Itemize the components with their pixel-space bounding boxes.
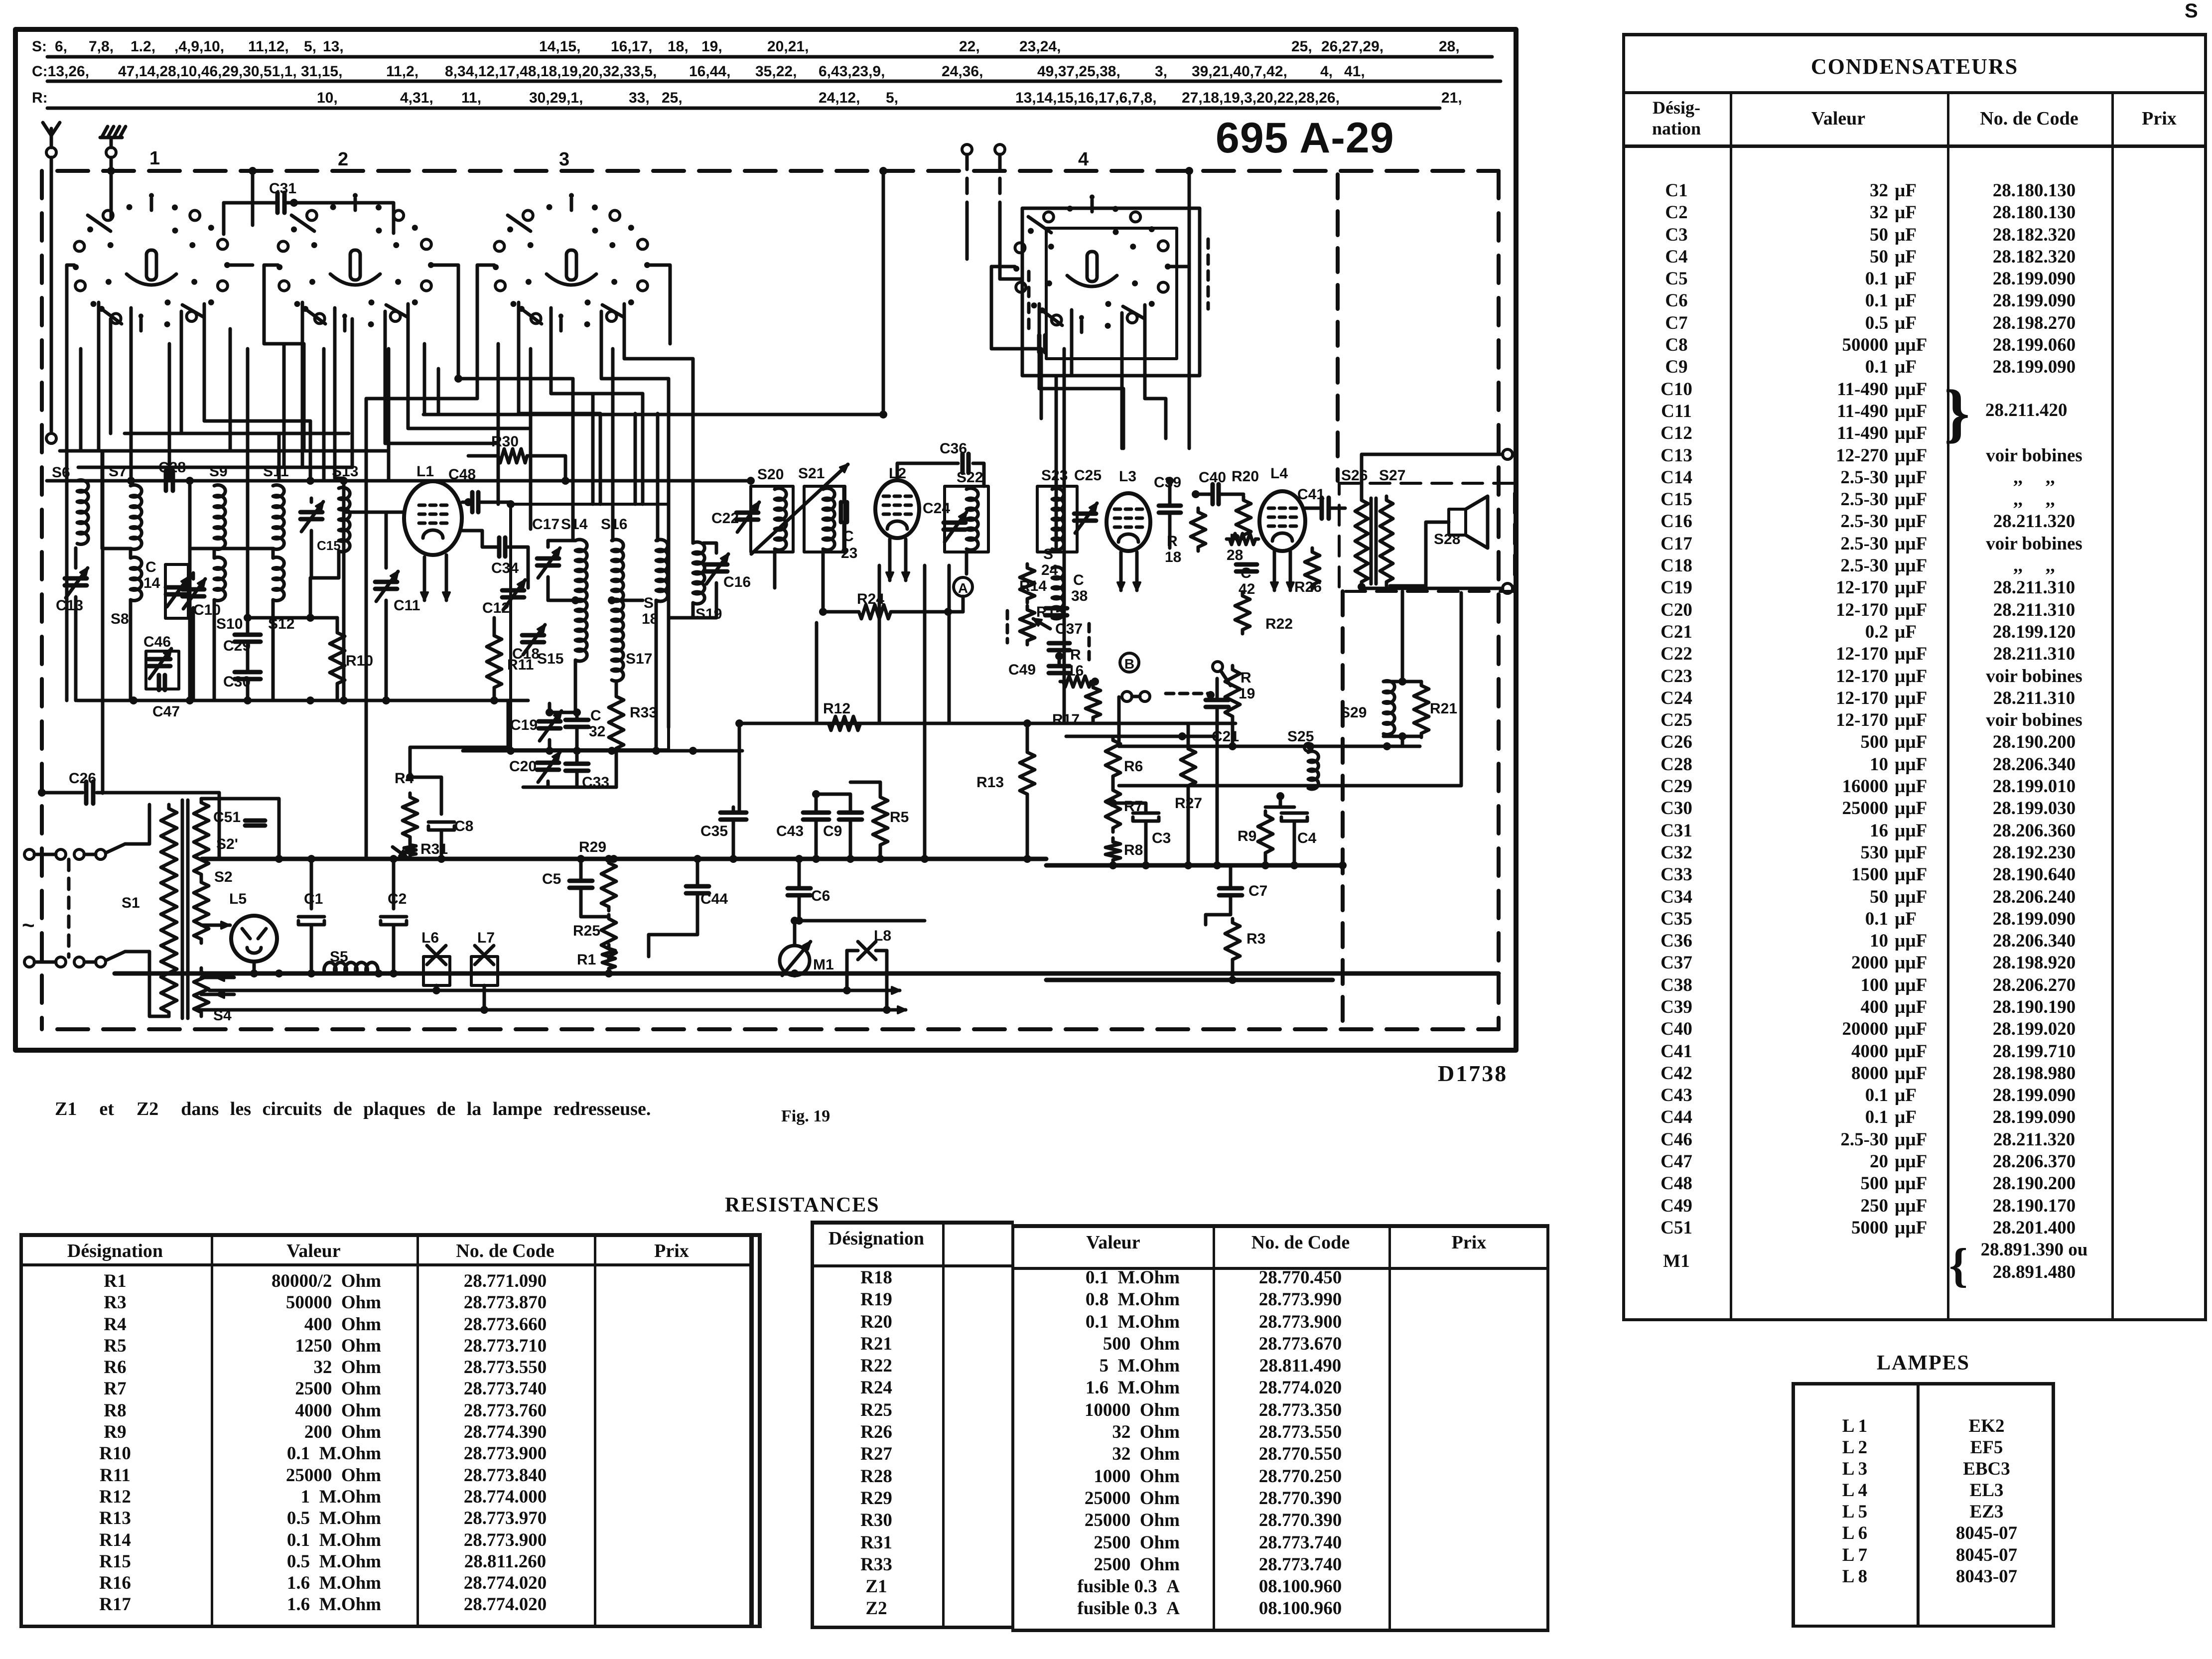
IF can box outline bbox=[511, 504, 669, 750]
wire output upper bbox=[1362, 454, 1503, 496]
svg-text:11,12,: 11,12, bbox=[248, 38, 289, 55]
svg-text:35,22,: 35,22, bbox=[755, 63, 797, 80]
wire S20 S21 bottom bbox=[775, 551, 823, 612]
wire bus y965 right bbox=[344, 479, 751, 483]
svg-text:6,43,23,9,: 6,43,23,9, bbox=[819, 63, 885, 80]
svg-text:R20: R20 bbox=[1232, 468, 1259, 485]
coil S21 frame bbox=[804, 486, 845, 552]
mains terminals lower bbox=[24, 957, 34, 967]
svg-text:13,: 13, bbox=[323, 38, 344, 55]
wire L1 grid bbox=[344, 512, 405, 528]
svg-text:R12: R12 bbox=[823, 700, 850, 717]
coil S22 frame bbox=[945, 486, 988, 552]
svg-text:C37: C37 bbox=[1055, 621, 1083, 637]
wire C35 riser bbox=[738, 723, 741, 813]
svg-text:4: 4 bbox=[1078, 149, 1089, 170]
svg-text:R5: R5 bbox=[890, 809, 909, 826]
svg-text:B: B bbox=[1124, 656, 1134, 672]
wire harness wafer 3b bbox=[519, 302, 600, 504]
svg-text:24,36,: 24,36, bbox=[942, 63, 983, 80]
S list row underline bbox=[47, 55, 1492, 59]
svg-text:C34: C34 bbox=[491, 560, 519, 576]
wire speaker link bbox=[1390, 522, 1449, 586]
wire earth node down bbox=[110, 171, 113, 218]
svg-text:C47: C47 bbox=[152, 703, 180, 720]
wire heavy bus y1737 bbox=[1046, 863, 1343, 868]
wire harness wafer 3d bbox=[601, 311, 669, 504]
wire S29 R21 top bbox=[1383, 591, 1421, 682]
svg-text:S: S bbox=[1043, 546, 1053, 562]
wire filament leads bbox=[201, 977, 234, 994]
svg-text:S11: S11 bbox=[263, 463, 289, 480]
svg-text:26,27,29,: 26,27,29, bbox=[1321, 38, 1383, 55]
wire heavy bus y1724 bbox=[202, 857, 1046, 861]
wire harness wafer 4a bbox=[991, 267, 1041, 418]
svg-text:S2': S2' bbox=[216, 836, 238, 852]
svg-text:24,12,: 24,12, bbox=[819, 90, 860, 106]
wire wafer4 top chassis drop bbox=[1188, 171, 1191, 267]
svg-text:S8: S8 bbox=[111, 611, 129, 627]
svg-text:C49: C49 bbox=[1008, 662, 1036, 678]
speaker dashed box bbox=[1339, 483, 1515, 591]
switch S1 linkage bbox=[67, 859, 71, 957]
wire mid horizontal bus a bbox=[423, 413, 883, 416]
svg-text:5,: 5, bbox=[304, 38, 316, 55]
svg-text:1: 1 bbox=[149, 148, 160, 169]
svg-text:28: 28 bbox=[1227, 547, 1243, 563]
svg-text:R29: R29 bbox=[579, 839, 606, 855]
switch contact pair B bbox=[1122, 691, 1132, 701]
wire node A drop bbox=[962, 596, 965, 612]
svg-text:39,21,40,7,42,: 39,21,40,7,42, bbox=[1192, 63, 1287, 80]
svg-text:M1: M1 bbox=[813, 957, 834, 973]
wire mains upper bbox=[125, 805, 149, 844]
wire L8 drop b bbox=[885, 951, 889, 1010]
wafer switch 2 bbox=[350, 250, 360, 280]
corner letter S bbox=[2185, 0, 2198, 22]
wire L8 drop a bbox=[845, 951, 849, 990]
wire wafer1 top right drop bbox=[222, 203, 226, 234]
svg-text:18: 18 bbox=[1165, 549, 1181, 565]
earth terminal bbox=[106, 147, 116, 157]
wire choke leads bbox=[275, 969, 283, 977]
svg-text:R17: R17 bbox=[1052, 711, 1080, 728]
tube L1 heater arrows bbox=[423, 557, 426, 600]
svg-text:C2: C2 bbox=[388, 891, 407, 907]
svg-text:10,: 10, bbox=[317, 90, 338, 106]
svg-text:R13: R13 bbox=[976, 774, 1004, 791]
svg-text:49,37,25,38,: 49,37,25,38, bbox=[1037, 63, 1120, 80]
svg-text:41,: 41, bbox=[1344, 63, 1365, 80]
chassis dashed top line bbox=[57, 169, 1499, 173]
wire phono drops bbox=[967, 214, 1022, 279]
svg-text:R1: R1 bbox=[577, 952, 596, 968]
svg-text:28,: 28, bbox=[1439, 38, 1460, 55]
wire antenna long vertical bbox=[50, 157, 53, 431]
svg-text:C21: C21 bbox=[1212, 728, 1239, 745]
wire S8 S10 upper taps bbox=[102, 451, 273, 549]
svg-text:33,: 33, bbox=[629, 90, 650, 106]
oscillator tuning arrow bbox=[751, 464, 848, 554]
C list row underline bbox=[47, 80, 1501, 83]
svg-text:S9: S9 bbox=[209, 463, 228, 480]
antenna terminal bbox=[46, 147, 56, 157]
wire mid horizontal bus b bbox=[60, 449, 389, 453]
svg-text:L5: L5 bbox=[229, 891, 247, 907]
mains terminals upper bbox=[24, 849, 34, 859]
phono terminal b bbox=[995, 144, 1005, 154]
svg-text:R31: R31 bbox=[420, 841, 448, 857]
wire harness wafer 2a bbox=[264, 265, 304, 451]
wafer4 capacitor detail bbox=[1039, 335, 1045, 352]
chassis dashed right line bbox=[1497, 171, 1501, 1029]
svg-text:S29: S29 bbox=[1340, 704, 1367, 721]
svg-text:3: 3 bbox=[559, 149, 569, 170]
transformer core bbox=[182, 800, 188, 1018]
wire harness wafer 1b bbox=[97, 302, 101, 451]
svg-text:18,: 18, bbox=[668, 38, 689, 55]
transformer primary winding bbox=[161, 805, 177, 1016]
capacitor C46b bbox=[159, 675, 165, 690]
wire IF bottom bus bbox=[463, 749, 742, 753]
dashed coupling a bbox=[1088, 624, 1091, 663]
schematic frame border bbox=[15, 29, 1516, 1050]
wire node 507 down bbox=[251, 171, 255, 225]
wire long vertical x1773 bbox=[882, 171, 885, 415]
svg-text:~: ~ bbox=[22, 913, 35, 938]
svg-text:S13: S13 bbox=[332, 463, 358, 480]
svg-text:31,15,: 31,15, bbox=[301, 63, 342, 80]
svg-text:R: R bbox=[1167, 533, 1178, 550]
wire S22 bottom bbox=[965, 552, 968, 574]
chassis number 695 A-29 bbox=[1216, 114, 1394, 163]
svg-text:R21: R21 bbox=[1430, 700, 1457, 717]
wire harness wafer 3c bbox=[551, 308, 643, 504]
drawing number D1738 bbox=[1438, 1060, 1508, 1087]
svg-text:25,: 25, bbox=[1291, 38, 1312, 55]
svg-text:S27: S27 bbox=[1379, 467, 1405, 484]
svg-text:C20: C20 bbox=[509, 758, 537, 775]
svg-text:25,: 25, bbox=[662, 90, 683, 106]
svg-text:L3: L3 bbox=[1119, 468, 1136, 485]
wafer4 dashed detail b bbox=[1207, 239, 1210, 309]
wire verticals IF area bbox=[531, 349, 693, 727]
wire L2 plate bbox=[897, 463, 958, 480]
svg-text:C: C bbox=[590, 707, 601, 724]
switch above C21 bbox=[1213, 662, 1223, 672]
wafer4 inner frame bbox=[1046, 228, 1177, 359]
wire harness wafer 2f bbox=[432, 265, 571, 379]
wire crossing verticals bbox=[81, 319, 531, 618]
svg-text:R: R bbox=[1070, 647, 1081, 663]
output terminal lower bbox=[1503, 583, 1513, 593]
svg-text:A: A bbox=[958, 580, 968, 596]
wire harness wafer 2c bbox=[335, 308, 344, 481]
wire harness wafer 4c bbox=[1056, 310, 1072, 723]
svg-text:S:: S: bbox=[32, 38, 47, 55]
wire bus R12 line bbox=[739, 722, 1236, 725]
wire output lower bbox=[1362, 586, 1503, 588]
heater rail arrow b bbox=[199, 1008, 906, 1012]
wire mid horizontal bus c bbox=[78, 466, 352, 469]
figure label bbox=[781, 1107, 830, 1126]
svg-text:C24: C24 bbox=[923, 500, 950, 517]
svg-text:R22: R22 bbox=[1265, 616, 1293, 632]
svg-text:4,: 4, bbox=[1320, 63, 1333, 80]
wafer switch 3 bbox=[566, 250, 576, 280]
wire harness wafer 1a bbox=[67, 265, 74, 481]
svg-text:11,: 11, bbox=[461, 90, 481, 106]
node B bbox=[1120, 653, 1139, 672]
svg-text:22,: 22, bbox=[959, 38, 980, 55]
svg-text:C: C bbox=[1073, 572, 1084, 588]
transformer secondary S2 upper bbox=[194, 799, 209, 878]
svg-text:S: S bbox=[644, 595, 654, 611]
svg-text:C4: C4 bbox=[1297, 830, 1317, 846]
wire harness wafer 1f bbox=[229, 264, 253, 267]
svg-text:C1: C1 bbox=[304, 891, 323, 907]
svg-text:27,18,19,3,20,22,28,26,: 27,18,19,3,20,22,28,26, bbox=[1182, 90, 1340, 106]
svg-text:13,14,15,16,17,6,7,8,: 13,14,15,16,17,6,7,8, bbox=[1015, 90, 1157, 106]
chassis dashed left line bbox=[40, 171, 44, 1029]
svg-text:S15: S15 bbox=[537, 651, 563, 667]
svg-text:C8: C8 bbox=[454, 818, 473, 834]
output terminal upper bbox=[1503, 449, 1513, 459]
phono terminal a bbox=[962, 144, 972, 154]
svg-text:21,: 21, bbox=[1441, 90, 1462, 106]
wire S14 tap bbox=[550, 599, 575, 602]
svg-text:C13: C13 bbox=[56, 597, 83, 614]
heater rail arrow a bbox=[209, 989, 900, 992]
transformer secondary S2 lower bbox=[194, 878, 209, 943]
svg-text:S20: S20 bbox=[757, 466, 784, 483]
wire top bus y965 bbox=[47, 479, 344, 483]
wire right bus y1577 bbox=[1119, 593, 1461, 786]
svg-text:C16: C16 bbox=[723, 574, 751, 590]
wire lamps to rails bbox=[436, 985, 484, 1010]
wire M1 leads bbox=[793, 921, 797, 975]
svg-text:L1: L1 bbox=[416, 463, 434, 480]
svg-text:R10: R10 bbox=[346, 653, 373, 669]
svg-text:C:13,26,: C:13,26, bbox=[32, 63, 89, 80]
svg-text:C9: C9 bbox=[823, 823, 842, 839]
svg-text:S7: S7 bbox=[109, 463, 127, 480]
wire mains lower bbox=[125, 952, 169, 1016]
svg-text:R33: R33 bbox=[630, 704, 657, 721]
svg-text:C15: C15 bbox=[317, 538, 341, 553]
R list row underline bbox=[47, 107, 1440, 110]
dashed coupling b bbox=[1006, 611, 1009, 643]
wire harness wafer 4b bbox=[1039, 304, 1123, 448]
dashed inner vertical x2685 bbox=[1336, 174, 1340, 481]
svg-text:C11: C11 bbox=[394, 597, 420, 614]
wafer switch 4 bbox=[1087, 252, 1097, 281]
wire bus y1967 right bbox=[1046, 978, 1333, 982]
svg-text:C5: C5 bbox=[542, 871, 561, 887]
coil S23 frame bbox=[1037, 486, 1077, 552]
wire harness wafer 1c bbox=[130, 308, 133, 481]
svg-text:C6: C6 bbox=[811, 888, 830, 904]
svg-text:47,14,28,10,46,29,30,51,1,: 47,14,28,10,46,29,30,51,1, bbox=[118, 63, 297, 80]
svg-text:C17: C17 bbox=[532, 516, 559, 533]
wire verticals right block bbox=[1119, 697, 1265, 865]
svg-text:C51: C51 bbox=[213, 809, 241, 826]
svg-text:R:: R: bbox=[32, 90, 48, 106]
svg-text:8,34,12,17,48,18,19,20,32,33,5: 8,34,12,17,48,18,19,20,32,33,5, bbox=[445, 63, 657, 80]
svg-text:S6: S6 bbox=[52, 464, 70, 481]
tube L2 heater arrows bbox=[888, 539, 892, 580]
dashed inner vertical x2695 lower bbox=[1341, 591, 1345, 1029]
svg-text:11,2,: 11,2, bbox=[386, 63, 418, 80]
wire L5 anode bbox=[201, 924, 230, 927]
svg-text:S28: S28 bbox=[1434, 531, 1460, 548]
svg-text:14,15,: 14,15, bbox=[539, 38, 580, 55]
wire R19 bottom bbox=[1231, 720, 1235, 746]
svg-text:5,: 5, bbox=[886, 90, 898, 106]
svg-text:L6: L6 bbox=[421, 930, 439, 946]
wire harness wafer 4f bbox=[1169, 267, 1189, 448]
svg-text:,4,9,10,: ,4,9,10, bbox=[174, 38, 224, 55]
svg-text:2: 2 bbox=[338, 149, 348, 170]
coil S20 frame bbox=[751, 486, 793, 552]
svg-text:S17: S17 bbox=[626, 651, 652, 667]
wire R4 top bbox=[410, 700, 508, 777]
svg-text:38: 38 bbox=[1071, 588, 1088, 604]
wire harness wafer 2b bbox=[301, 302, 304, 467]
svg-text:32: 32 bbox=[589, 723, 605, 740]
node on chassis line x507 bbox=[249, 167, 257, 175]
wafer switch 4 frame bbox=[1022, 208, 1200, 376]
svg-text:16,17,: 16,17, bbox=[611, 38, 652, 55]
svg-text:S4: S4 bbox=[213, 1007, 232, 1024]
svg-text:C19: C19 bbox=[510, 717, 538, 733]
wire left verticals bbox=[67, 451, 366, 859]
wire harness wafer 3f bbox=[649, 265, 670, 344]
earth lead wire bbox=[110, 157, 113, 171]
svg-text:C3: C3 bbox=[1152, 830, 1171, 846]
chassis dashed bottom line bbox=[57, 1027, 1499, 1031]
wire S29 R21 bottom bbox=[1383, 736, 1421, 746]
svg-text:23,24,: 23,24, bbox=[1019, 38, 1061, 55]
antenna lead wire bbox=[50, 157, 53, 171]
svg-text:L4: L4 bbox=[1270, 465, 1288, 482]
svg-text:R9: R9 bbox=[1238, 828, 1256, 844]
wafer4 dashed detail a bbox=[1027, 272, 1031, 329]
wire harness wafer 4d bbox=[1120, 313, 1124, 448]
svg-text:4,31,: 4,31, bbox=[400, 90, 433, 106]
svg-text:30,29,1,: 30,29,1, bbox=[529, 90, 583, 106]
svg-text:S21: S21 bbox=[798, 465, 825, 482]
wire harness wafer 4e bbox=[1145, 305, 1166, 438]
svg-text:C25: C25 bbox=[1074, 467, 1102, 484]
wire harness wafer 2e bbox=[408, 304, 531, 504]
wire bus y1498 bbox=[1119, 745, 1420, 748]
svg-text:S1: S1 bbox=[122, 895, 140, 911]
wire harness wafer 3e bbox=[624, 304, 693, 543]
wire secondary top bbox=[201, 799, 279, 859]
svg-text:14: 14 bbox=[143, 575, 160, 591]
svg-text:C43: C43 bbox=[776, 823, 804, 839]
svg-text:C10: C10 bbox=[193, 602, 221, 618]
svg-text:R3: R3 bbox=[1246, 931, 1265, 947]
svg-text:C7: C7 bbox=[1248, 883, 1267, 899]
svg-text:S2: S2 bbox=[214, 869, 233, 885]
output transformer core bbox=[1371, 498, 1376, 584]
wire IF lower link bbox=[523, 786, 616, 789]
wire harness wafer 1e bbox=[204, 304, 310, 481]
svg-text:R8: R8 bbox=[1124, 842, 1143, 858]
svg-text:S26: S26 bbox=[1341, 467, 1368, 484]
svg-text:6,: 6, bbox=[55, 38, 67, 55]
svg-text:S23: S23 bbox=[1041, 467, 1068, 484]
transformer filament winding S4 bbox=[194, 968, 209, 1016]
box around C14 bbox=[165, 564, 188, 618]
svg-text:3,: 3, bbox=[1155, 63, 1167, 80]
svg-text:L7: L7 bbox=[477, 930, 495, 946]
wire bus y870 bbox=[125, 432, 349, 435]
wire S16 tap bbox=[612, 599, 643, 602]
svg-text:7,8,: 7,8, bbox=[89, 38, 114, 55]
wire L5 output bbox=[253, 962, 256, 973]
wafer switch 1 bbox=[146, 250, 156, 280]
svg-text:C46: C46 bbox=[143, 634, 171, 650]
svg-text:16,44,: 16,44, bbox=[689, 63, 730, 80]
wire verticals middle bbox=[817, 565, 949, 859]
box around C46 bbox=[146, 651, 179, 689]
svg-text:C: C bbox=[145, 559, 156, 575]
svg-text:R25: R25 bbox=[573, 923, 600, 939]
svg-text:R6: R6 bbox=[1124, 758, 1143, 775]
svg-text:R: R bbox=[1241, 670, 1251, 686]
svg-text:R15: R15 bbox=[1036, 604, 1064, 620]
caption Z1 et Z2 bbox=[55, 1098, 651, 1120]
wire harness wafer 1d bbox=[181, 311, 279, 481]
svg-text:1.2,: 1.2, bbox=[131, 38, 155, 55]
wire harness wafer 3a bbox=[366, 265, 494, 451]
wire coil bank links bbox=[131, 481, 344, 700]
node A bbox=[954, 577, 972, 596]
svg-text:C35: C35 bbox=[700, 823, 728, 839]
ground rail bus bbox=[115, 971, 1499, 976]
wire bus y1478 bbox=[1066, 735, 1216, 738]
svg-text:19,: 19, bbox=[701, 38, 722, 55]
svg-text:20,21,: 20,21, bbox=[767, 38, 809, 55]
wire harness wafer 2d bbox=[385, 311, 498, 504]
wire S15 S17 bottom bbox=[550, 711, 575, 714]
